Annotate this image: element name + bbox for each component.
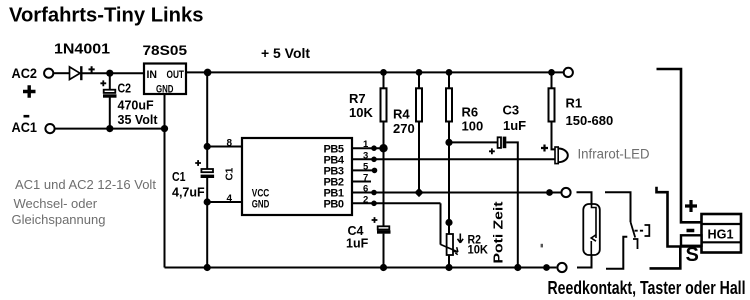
wire AC1 row <box>55 128 165 130</box>
svg-text:OUT: OUT <box>167 69 185 81</box>
junction C3 rail <box>514 264 521 271</box>
wire pin 3 PB4 to LED <box>352 158 555 160</box>
taster actuator dashes <box>635 230 645 232</box>
stray mark <box>541 244 543 248</box>
harness top wire <box>657 69 702 222</box>
junction pin6 right <box>546 189 553 196</box>
plus sign C3 <box>489 148 495 154</box>
junction R6 C3 <box>445 139 452 146</box>
svg-text:Infrarot-LED: Infrarot-LED <box>578 146 650 161</box>
svg-text:R6: R6 <box>462 105 479 120</box>
svg-text:Poti Zeit: Poti Zeit <box>492 200 506 263</box>
junction pin6 <box>371 190 377 196</box>
svg-text:Wechsel- oder: Wechsel- oder <box>14 196 98 211</box>
junction rail VCC <box>204 69 212 77</box>
harness S branch down <box>650 247 681 269</box>
svg-text:35 Volt: 35 Volt <box>118 113 159 127</box>
node AC2 (terminal) <box>44 69 53 78</box>
junction rail R4 <box>416 69 423 76</box>
svg-text:AC1: AC1 <box>12 119 38 135</box>
svg-text:R7: R7 <box>349 91 366 106</box>
connector HG1 tab <box>681 235 702 246</box>
node +5V terminal <box>564 68 573 77</box>
resistor R1 <box>551 72 553 88</box>
wire pin 1 PB5 <box>352 147 384 149</box>
wire pin2 to wiper <box>440 203 442 244</box>
svg-text:270: 270 <box>393 121 415 136</box>
junction pin1 R7 <box>379 144 387 152</box>
svg-text:5: 5 <box>363 161 369 172</box>
svg-text:R1: R1 <box>566 96 583 111</box>
potentiometer R2 <box>447 234 453 255</box>
wire reed top <box>577 192 592 204</box>
junction rail R1 <box>548 69 555 76</box>
plus sign C2 <box>100 80 106 86</box>
resistor R4 <box>418 72 420 88</box>
svg-text:AC2: AC2 <box>12 65 38 81</box>
junction pin5 <box>372 168 378 174</box>
resistor R7 <box>383 72 385 88</box>
wire taster top <box>605 192 631 222</box>
svg-text:C1: C1 <box>224 167 235 180</box>
svg-text:1uF: 1uF <box>503 118 526 133</box>
voltage regulator U2 78S05 <box>144 64 186 95</box>
bottom rail wire <box>165 267 557 269</box>
wire pin 7 PB2 <box>352 181 371 183</box>
wire pin 5 PB3 <box>352 169 375 171</box>
minus sign harness <box>687 229 695 233</box>
wire reed bottom <box>577 255 592 268</box>
node AC1 (terminal) <box>45 124 54 133</box>
junction R2 rail <box>445 264 452 271</box>
svg-text:S: S <box>686 244 699 266</box>
wire pin 8 <box>207 146 242 148</box>
svg-text:10K: 10K <box>468 243 489 257</box>
svg-text:78S05: 78S05 <box>143 42 188 58</box>
svg-text:4,7uF: 4,7uF <box>172 185 205 199</box>
reed contact S1 <box>583 204 600 255</box>
junction C4 rail <box>380 264 387 271</box>
wire VCC vertical <box>206 72 208 169</box>
taster button cap <box>645 225 650 236</box>
svg-text:1: 1 <box>363 139 369 150</box>
plus sign AC input <box>23 85 36 97</box>
taster fixed contact <box>633 239 638 249</box>
plus sign rectified rail <box>89 66 95 72</box>
wire AC2 to diode <box>54 72 70 74</box>
junction rail R6 <box>446 69 453 76</box>
svg-text:C3: C3 <box>503 103 520 118</box>
svg-text:7: 7 <box>363 173 368 184</box>
plus sign harness <box>685 200 697 212</box>
junction R2 top <box>445 219 452 226</box>
wire pin 2 PB0 <box>352 202 441 204</box>
junction pin1 a <box>371 145 377 151</box>
wiper R2 <box>440 244 456 251</box>
junction rail R7 <box>380 69 387 76</box>
junction VCC pin8 <box>204 143 211 150</box>
arrow glyph R2 <box>458 234 464 243</box>
svg-text:PB0: PB0 <box>324 199 345 211</box>
svg-text:GND: GND <box>156 84 174 96</box>
junction rail bottom terminal <box>543 264 550 271</box>
minus sign AC input <box>24 115 30 118</box>
wire diode to regulator IN <box>83 72 145 74</box>
op IC U1 box <box>242 138 352 215</box>
junction GND pin4 <box>204 198 211 205</box>
svg-text:1N4001: 1N4001 <box>54 42 110 58</box>
svg-text:Vorfahrts-Tiny Links: Vorfahrts-Tiny Links <box>9 5 203 27</box>
junction C2 top <box>106 70 113 77</box>
diode D1 1N4001 <box>70 67 81 80</box>
svg-text:R4: R4 <box>393 107 410 122</box>
plus sign LED <box>541 145 548 152</box>
svg-text:100: 100 <box>462 119 484 134</box>
svg-text:150-680: 150-680 <box>566 113 614 128</box>
capacitor C3 <box>449 141 498 143</box>
svg-text:1uF: 1uF <box>346 237 369 251</box>
node bottom terminal <box>557 263 566 272</box>
svg-text:2: 2 <box>363 194 368 205</box>
taster S2 lever <box>631 222 636 238</box>
svg-text:HG1: HG1 <box>708 227 734 242</box>
capacitor C1 <box>201 169 213 172</box>
junction C2 bottom <box>106 125 113 132</box>
junction C1 bottom rail <box>204 264 211 271</box>
junction pin2 <box>371 201 377 207</box>
junction GND at AC1 row <box>161 125 168 132</box>
svg-text:Gleichspannung: Gleichspannung <box>12 212 106 227</box>
wire C2 top lead <box>109 73 111 90</box>
svg-text:8: 8 <box>227 138 233 149</box>
node OUT terminal middle <box>561 188 570 197</box>
wire pin 6 PB1 to terminal <box>352 192 561 194</box>
harness S wire <box>657 187 702 247</box>
junction pin3 <box>371 157 377 163</box>
resistor R6 <box>448 72 450 88</box>
svg-text:GND: GND <box>252 199 270 211</box>
svg-text:6: 6 <box>363 184 368 195</box>
plus sign C1 <box>195 160 201 166</box>
svg-text:10K: 10K <box>349 105 373 120</box>
LED D2 infrared <box>555 147 558 164</box>
svg-text:3: 3 <box>363 150 368 161</box>
svg-text:AC1 und AC2 12-16 Volt: AC1 und AC2 12-16 Volt <box>15 177 156 192</box>
wire +5V rail <box>186 71 563 73</box>
wire GND down <box>164 94 166 268</box>
capacitor C2 <box>104 90 116 93</box>
plus sign C4 <box>372 217 378 223</box>
junction pin6 R4 (diamond) <box>414 188 423 197</box>
svg-text:470uF: 470uF <box>118 99 154 113</box>
svg-text:Reedkontakt, Taster oder Hall: Reedkontakt, Taster oder Hall <box>548 277 746 298</box>
svg-text:+ 5 Volt: + 5 Volt <box>261 45 310 61</box>
svg-text:C1: C1 <box>172 170 186 184</box>
svg-text:C2: C2 <box>118 82 132 96</box>
wire taster bottom <box>606 237 627 269</box>
svg-text:IN: IN <box>147 69 158 81</box>
svg-text:4: 4 <box>227 193 233 204</box>
wire pin 4 <box>207 201 242 203</box>
capacitor C4 <box>378 226 390 229</box>
connector HG1 <box>702 214 742 253</box>
